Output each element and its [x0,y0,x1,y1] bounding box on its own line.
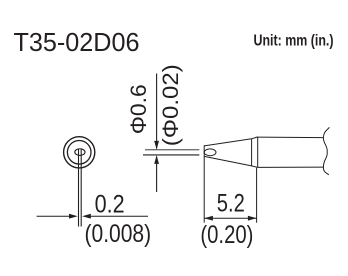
phi0.6 upper dim line [156,74,158,149]
phi0.6 lower dim line [156,157,158,193]
body bottom edge [258,166,324,168]
shoulder top [252,137,258,139]
side view tip vertical extension [203,145,205,222]
body top edge [258,136,324,139]
dim 0.2 left line [37,215,71,217]
chisel edge line right [80,149,82,227]
collar line [257,137,259,168]
cone top edge [204,139,251,146]
break line [323,127,329,174]
dim 5.2 line [204,217,256,219]
svg-text:Unit: mm (in.): Unit: mm (in.) [254,33,334,50]
dim 5.2 right extension [256,168,258,223]
arrow up phi0.6 [154,155,159,164]
front view tip ellipse [75,149,85,156]
svg-text:(0.008): (0.008) [85,220,152,248]
svg-text:T35-02D06: T35-02D06 [14,27,140,57]
svg-text:5.2: 5.2 [217,190,245,218]
arrow right 5.2 [248,216,257,221]
tip extension line top [145,149,199,151]
svg-text:Φ0.6: Φ0.6 [126,84,151,134]
front view outer circle [64,137,95,168]
tip extension line bottom [143,154,199,156]
front view inner circle [67,141,91,165]
svg-text:(0.20): (0.20) [200,221,253,249]
dim 0.2 right line [91,215,149,217]
side view tip ellipse [204,149,216,156]
arrow right toward chisel [69,214,78,219]
arrow left toward chisel [82,214,91,219]
plating band line [251,139,253,166]
chisel edge line left [78,149,80,227]
shoulder bottom [252,166,258,168]
cone bottom edge [204,156,251,166]
svg-text:(Φ0.02): (Φ0.02) [158,64,183,146]
arrow down phi0.6 [154,141,159,150]
arrow left 5.2 [204,216,213,221]
svg-text:0.2: 0.2 [95,190,125,218]
